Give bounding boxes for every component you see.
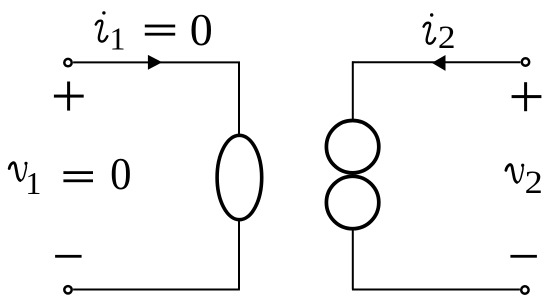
- terminal: port 1 top: [64, 59, 71, 66]
- terminal: port 2 bottom: [521, 286, 528, 293]
- svg-text:0: 0: [110, 148, 131, 200]
- label: - (port 1): [55, 255, 82, 258]
- wire: right vertical from norator down: [352, 227, 354, 290]
- label: v1 = 0: [9, 148, 131, 201]
- wire: top-left horizontal: [73, 61, 240, 63]
- wire: bottom-right horizontal: [352, 289, 520, 291]
- norator N2 circle top: [326, 121, 378, 173]
- svg-text:0: 0: [190, 4, 213, 55]
- wire: left vertical into nullator: [238, 62, 240, 137]
- arrowhead: i1 current direction: [148, 55, 162, 70]
- wire: right vertical into norator: [352, 61, 354, 122]
- label: v2: [506, 163, 543, 200]
- terminal: port 1 bottom: [64, 286, 71, 293]
- wire: top-right horizontal: [352, 61, 520, 63]
- label: i2: [424, 13, 456, 55]
- svg-text:2: 2: [438, 20, 456, 56]
- wire: left vertical from nullator down: [238, 219, 240, 290]
- svg-text:1: 1: [25, 165, 41, 201]
- wire: bottom-left horizontal: [73, 289, 240, 291]
- norator N2 circle bottom: [326, 176, 378, 228]
- nullator N1 (ellipse): [217, 135, 262, 219]
- arrowhead: i2 current direction: [432, 55, 446, 71]
- svg-text:2: 2: [525, 163, 543, 200]
- svg-text:1: 1: [110, 21, 126, 57]
- label: - (port 2): [510, 255, 537, 258]
- label: + (port 1): [54, 82, 84, 111]
- label: i1 = 0: [96, 4, 213, 57]
- label: + (port 2): [512, 82, 542, 111]
- terminal: port 2 top: [522, 58, 529, 65]
